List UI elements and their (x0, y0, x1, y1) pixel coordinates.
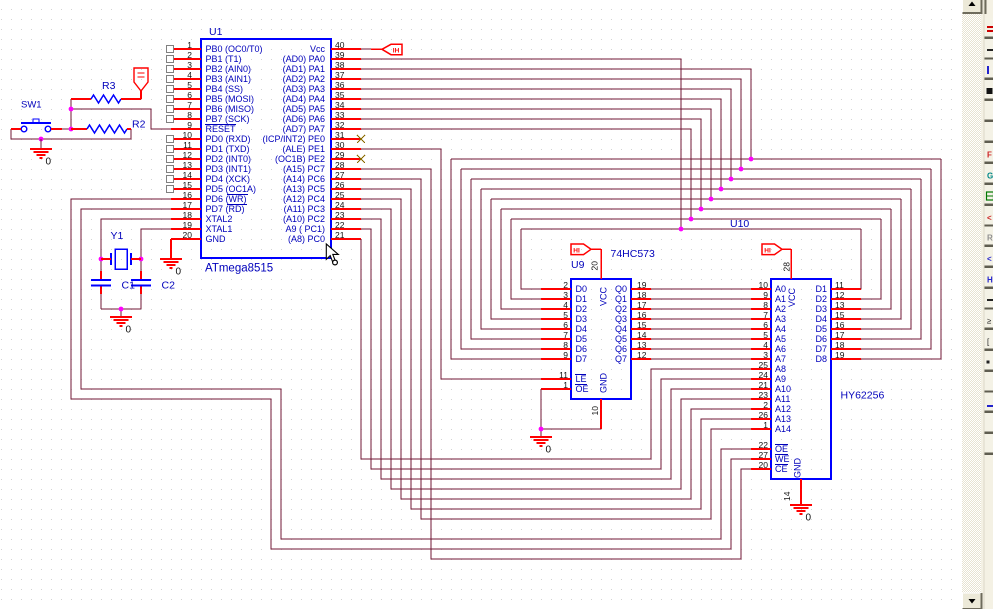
svg-text:PD5 (OC1A): PD5 (OC1A) (206, 184, 257, 194)
svg-text:Vcc: Vcc (310, 44, 326, 54)
svg-text:38: 38 (335, 60, 345, 70)
svg-text:A5: A5 (775, 334, 786, 344)
svg-text:Q5: Q5 (615, 334, 627, 344)
svg-text:D4: D4 (815, 314, 827, 324)
svg-text:SW1: SW1 (21, 100, 42, 111)
svg-text:(A8) PC0: (A8) PC0 (288, 234, 325, 244)
svg-text:GND: GND (206, 234, 227, 244)
svg-text:PD1 (TXD): PD1 (TXD) (206, 144, 250, 154)
svg-text:(AD2) PA2: (AD2) PA2 (283, 74, 325, 84)
svg-text:D5: D5 (576, 334, 588, 344)
svg-text:14: 14 (183, 170, 193, 180)
svg-text:WE: WE (775, 454, 790, 464)
svg-text:HI: HI (764, 247, 771, 254)
svg-text:HY62256: HY62256 (841, 390, 885, 402)
svg-text:Q2: Q2 (615, 304, 627, 314)
svg-text:19: 19 (637, 280, 647, 290)
svg-text:A3: A3 (775, 314, 786, 324)
svg-text:5: 5 (763, 330, 768, 340)
svg-text:3: 3 (187, 60, 192, 70)
svg-text:27: 27 (335, 170, 345, 180)
svg-text:R: R (987, 234, 993, 243)
svg-text:1: 1 (763, 420, 768, 430)
svg-text:D5: D5 (815, 324, 827, 334)
svg-text:PD7 (RD): PD7 (RD) (206, 204, 245, 214)
svg-text:17: 17 (835, 330, 845, 340)
svg-text:A4: A4 (775, 324, 786, 334)
svg-text:C1: C1 (122, 280, 136, 292)
svg-text:XTAL1: XTAL1 (206, 224, 233, 234)
svg-text:2: 2 (563, 280, 568, 290)
svg-text:PB3 (AIN1): PB3 (AIN1) (206, 74, 252, 84)
svg-text:G: G (987, 172, 993, 181)
svg-text:VCC: VCC (599, 286, 609, 306)
svg-text:Q1: Q1 (615, 294, 627, 304)
svg-text:17: 17 (183, 200, 193, 210)
svg-text:25: 25 (759, 360, 769, 370)
svg-text:0: 0 (176, 267, 182, 278)
svg-text:D3: D3 (815, 304, 827, 314)
svg-text:5: 5 (187, 80, 192, 90)
svg-text:16: 16 (835, 320, 845, 330)
svg-text:74HC573: 74HC573 (611, 248, 656, 260)
svg-text:35: 35 (335, 90, 345, 100)
svg-text:A13: A13 (775, 414, 791, 424)
svg-text:18: 18 (637, 290, 647, 300)
svg-text:(A11) PC3: (A11) PC3 (284, 204, 325, 214)
svg-text:D6: D6 (576, 344, 588, 354)
svg-text:PB1 (T1): PB1 (T1) (206, 54, 242, 64)
svg-text:6: 6 (563, 320, 568, 330)
svg-text:A12: A12 (775, 404, 791, 414)
svg-text:18: 18 (183, 210, 193, 220)
svg-text:D2: D2 (815, 294, 827, 304)
svg-text:0: 0 (46, 157, 52, 168)
svg-text:7: 7 (563, 330, 568, 340)
svg-text:9: 9 (187, 120, 192, 130)
svg-text:IH: IH (393, 47, 400, 54)
svg-text:(A15) PC7: (A15) PC7 (283, 164, 325, 174)
svg-text:25: 25 (335, 190, 345, 200)
svg-text:D1: D1 (815, 284, 827, 294)
svg-text:4: 4 (563, 300, 568, 310)
svg-text:XTAL2: XTAL2 (206, 214, 233, 224)
svg-text:OE: OE (775, 444, 788, 454)
svg-text:13: 13 (183, 160, 193, 170)
svg-text:19: 19 (183, 220, 193, 230)
svg-text:0: 0 (546, 445, 552, 456)
svg-text:(AD5) PA5: (AD5) PA5 (283, 104, 325, 114)
svg-text:PD4 (XCK): PD4 (XCK) (206, 174, 251, 184)
svg-text:Q3: Q3 (615, 314, 627, 324)
svg-text:A9 ( PC1): A9 ( PC1) (285, 224, 325, 234)
svg-text:≥: ≥ (987, 317, 992, 326)
svg-text:34: 34 (335, 100, 345, 110)
svg-text:13: 13 (637, 340, 647, 350)
svg-text:28: 28 (782, 262, 792, 272)
svg-text:7: 7 (187, 100, 192, 110)
svg-text:U9: U9 (571, 259, 585, 271)
svg-text:20: 20 (590, 261, 600, 271)
svg-text:9: 9 (763, 290, 768, 300)
svg-text:11: 11 (835, 280, 844, 290)
svg-text:11: 11 (559, 370, 568, 380)
svg-text:2: 2 (763, 400, 768, 410)
svg-text:12: 12 (637, 350, 647, 360)
svg-text:1: 1 (187, 40, 192, 50)
svg-text:(AD7) PA7: (AD7) PA7 (283, 124, 325, 134)
svg-text:Q0: Q0 (615, 284, 627, 294)
svg-text:14: 14 (782, 491, 792, 501)
svg-text:4: 4 (187, 70, 192, 80)
svg-text:D6: D6 (815, 334, 827, 344)
svg-text:PB5 (MOSI): PB5 (MOSI) (206, 94, 255, 104)
svg-text:PD6 (WR): PD6 (WR) (206, 194, 247, 204)
svg-text:PD3 (INT1): PD3 (INT1) (206, 164, 252, 174)
svg-text:6: 6 (187, 90, 192, 100)
svg-text:(AD4) PA4: (AD4) PA4 (283, 94, 325, 104)
svg-text:GND: GND (599, 373, 609, 394)
svg-text:26: 26 (759, 410, 769, 420)
svg-text:D1: D1 (576, 294, 588, 304)
svg-text:5: 5 (563, 310, 568, 320)
svg-text:10: 10 (759, 280, 769, 290)
svg-text:24: 24 (335, 200, 345, 210)
svg-text:PB6 (MISO): PB6 (MISO) (206, 104, 255, 114)
svg-text:U10: U10 (730, 218, 749, 230)
svg-text:R2: R2 (132, 119, 146, 131)
svg-text:U1: U1 (209, 26, 223, 38)
svg-text:32: 32 (335, 120, 345, 130)
svg-text:36: 36 (335, 80, 345, 90)
svg-text:<: < (987, 255, 992, 264)
svg-text:(AD1) PA1: (AD1) PA1 (283, 64, 325, 74)
svg-text:21: 21 (759, 380, 769, 390)
svg-text:23: 23 (759, 390, 769, 400)
svg-text:13: 13 (835, 300, 845, 310)
svg-text:(AD3) PA3: (AD3) PA3 (283, 84, 325, 94)
svg-text:28: 28 (335, 160, 345, 170)
svg-text:A2: A2 (775, 304, 786, 314)
svg-text:40: 40 (335, 40, 345, 50)
svg-text:(A13) PC5: (A13) PC5 (283, 184, 325, 194)
svg-text:H: H (987, 276, 993, 285)
svg-text:33: 33 (335, 110, 345, 120)
svg-text:16: 16 (637, 310, 647, 320)
svg-text:A11: A11 (775, 394, 790, 404)
svg-text:D3: D3 (576, 314, 588, 324)
svg-text:F: F (987, 151, 992, 160)
svg-text:21: 21 (335, 230, 345, 240)
svg-text:PB2 (AIN0): PB2 (AIN0) (206, 64, 252, 74)
svg-text:(A14) PC6: (A14) PC6 (283, 174, 325, 184)
svg-text:(AD0) PA0: (AD0) PA0 (283, 54, 325, 64)
svg-text:A9: A9 (775, 374, 786, 384)
svg-text:A8: A8 (775, 364, 786, 374)
svg-text:HI: HI (573, 247, 580, 254)
svg-text:8: 8 (763, 300, 768, 310)
svg-text:A0: A0 (775, 284, 786, 294)
svg-text:(ICP/INT2) PE0: (ICP/INT2) PE0 (262, 134, 325, 144)
svg-text:A7: A7 (775, 354, 786, 364)
svg-text:18: 18 (835, 340, 845, 350)
svg-text:3: 3 (563, 290, 568, 300)
svg-text:31: 31 (335, 130, 345, 140)
svg-text:20: 20 (759, 460, 769, 470)
svg-text:8: 8 (563, 340, 568, 350)
svg-text:GND: GND (793, 458, 803, 479)
svg-text:12: 12 (835, 290, 845, 300)
svg-text:20: 20 (183, 230, 193, 240)
svg-text:A1: A1 (775, 294, 786, 304)
svg-text:D4: D4 (576, 324, 588, 334)
svg-text:(A12) PC4: (A12) PC4 (283, 194, 325, 204)
svg-text:PB4 (SS): PB4 (SS) (206, 84, 244, 94)
svg-text:D7: D7 (815, 344, 827, 354)
svg-text:10: 10 (590, 406, 600, 416)
svg-text:27: 27 (759, 450, 769, 460)
svg-text:PB0 (OC0/T0): PB0 (OC0/T0) (206, 44, 263, 54)
svg-text:6: 6 (763, 320, 768, 330)
svg-text:A6: A6 (775, 344, 786, 354)
svg-text:Q4: Q4 (615, 324, 627, 334)
svg-text:2: 2 (187, 50, 192, 60)
svg-text:12: 12 (183, 150, 193, 160)
svg-text:C2: C2 (162, 280, 176, 292)
svg-text:D8: D8 (815, 354, 827, 364)
svg-text:OE: OE (576, 384, 589, 394)
svg-text:9: 9 (563, 350, 568, 360)
svg-text:0: 0 (126, 325, 132, 336)
svg-text:Y1: Y1 (111, 230, 124, 242)
svg-text:10: 10 (183, 130, 193, 140)
svg-text:15: 15 (183, 180, 193, 190)
svg-text:29: 29 (335, 150, 345, 160)
svg-text:LE: LE (576, 374, 587, 384)
svg-text:7: 7 (763, 310, 768, 320)
svg-text:A10: A10 (775, 384, 791, 394)
svg-text:23: 23 (335, 210, 345, 220)
svg-text:A14: A14 (775, 424, 791, 434)
svg-text:R3: R3 (102, 80, 116, 92)
svg-text:D7: D7 (576, 354, 588, 364)
svg-text:VCC: VCC (787, 287, 797, 307)
svg-text:1: 1 (563, 380, 568, 390)
svg-text:<: < (987, 214, 992, 223)
svg-text:D0: D0 (576, 284, 588, 294)
svg-text:39: 39 (335, 50, 345, 60)
svg-text:(A10) PC2: (A10) PC2 (283, 214, 325, 224)
svg-text:37: 37 (335, 70, 345, 80)
svg-text:0: 0 (806, 513, 812, 524)
svg-text:(ALE) PE1: (ALE) PE1 (282, 144, 325, 154)
svg-text:16: 16 (183, 190, 193, 200)
svg-text:11: 11 (183, 140, 192, 150)
svg-text:ATmega8515: ATmega8515 (205, 263, 273, 275)
svg-text:22: 22 (759, 440, 769, 450)
svg-text:(AD6) PA6: (AD6) PA6 (283, 114, 325, 124)
svg-text:Q6: Q6 (615, 344, 627, 354)
svg-text:22: 22 (335, 220, 345, 230)
svg-text:30: 30 (335, 140, 345, 150)
svg-text:14: 14 (637, 330, 647, 340)
svg-text:D2: D2 (576, 304, 588, 314)
svg-text:15: 15 (637, 320, 647, 330)
svg-text:4: 4 (763, 340, 768, 350)
svg-text:Q7: Q7 (615, 354, 627, 364)
svg-text:(OC1B) PE2: (OC1B) PE2 (275, 154, 325, 164)
svg-text:PB7 (SCK): PB7 (SCK) (206, 114, 250, 124)
svg-text:PD2 (INT0): PD2 (INT0) (206, 154, 252, 164)
svg-text:RESET: RESET (206, 124, 237, 134)
svg-text:17: 17 (637, 300, 647, 310)
svg-text:19: 19 (835, 350, 845, 360)
svg-text:PD0 (RXD): PD0 (RXD) (206, 134, 251, 144)
svg-text:24: 24 (759, 370, 769, 380)
svg-text:8: 8 (187, 110, 192, 120)
svg-text:3: 3 (763, 350, 768, 360)
svg-text:15: 15 (835, 310, 845, 320)
svg-text:26: 26 (335, 180, 345, 190)
svg-text:CE: CE (775, 464, 788, 474)
